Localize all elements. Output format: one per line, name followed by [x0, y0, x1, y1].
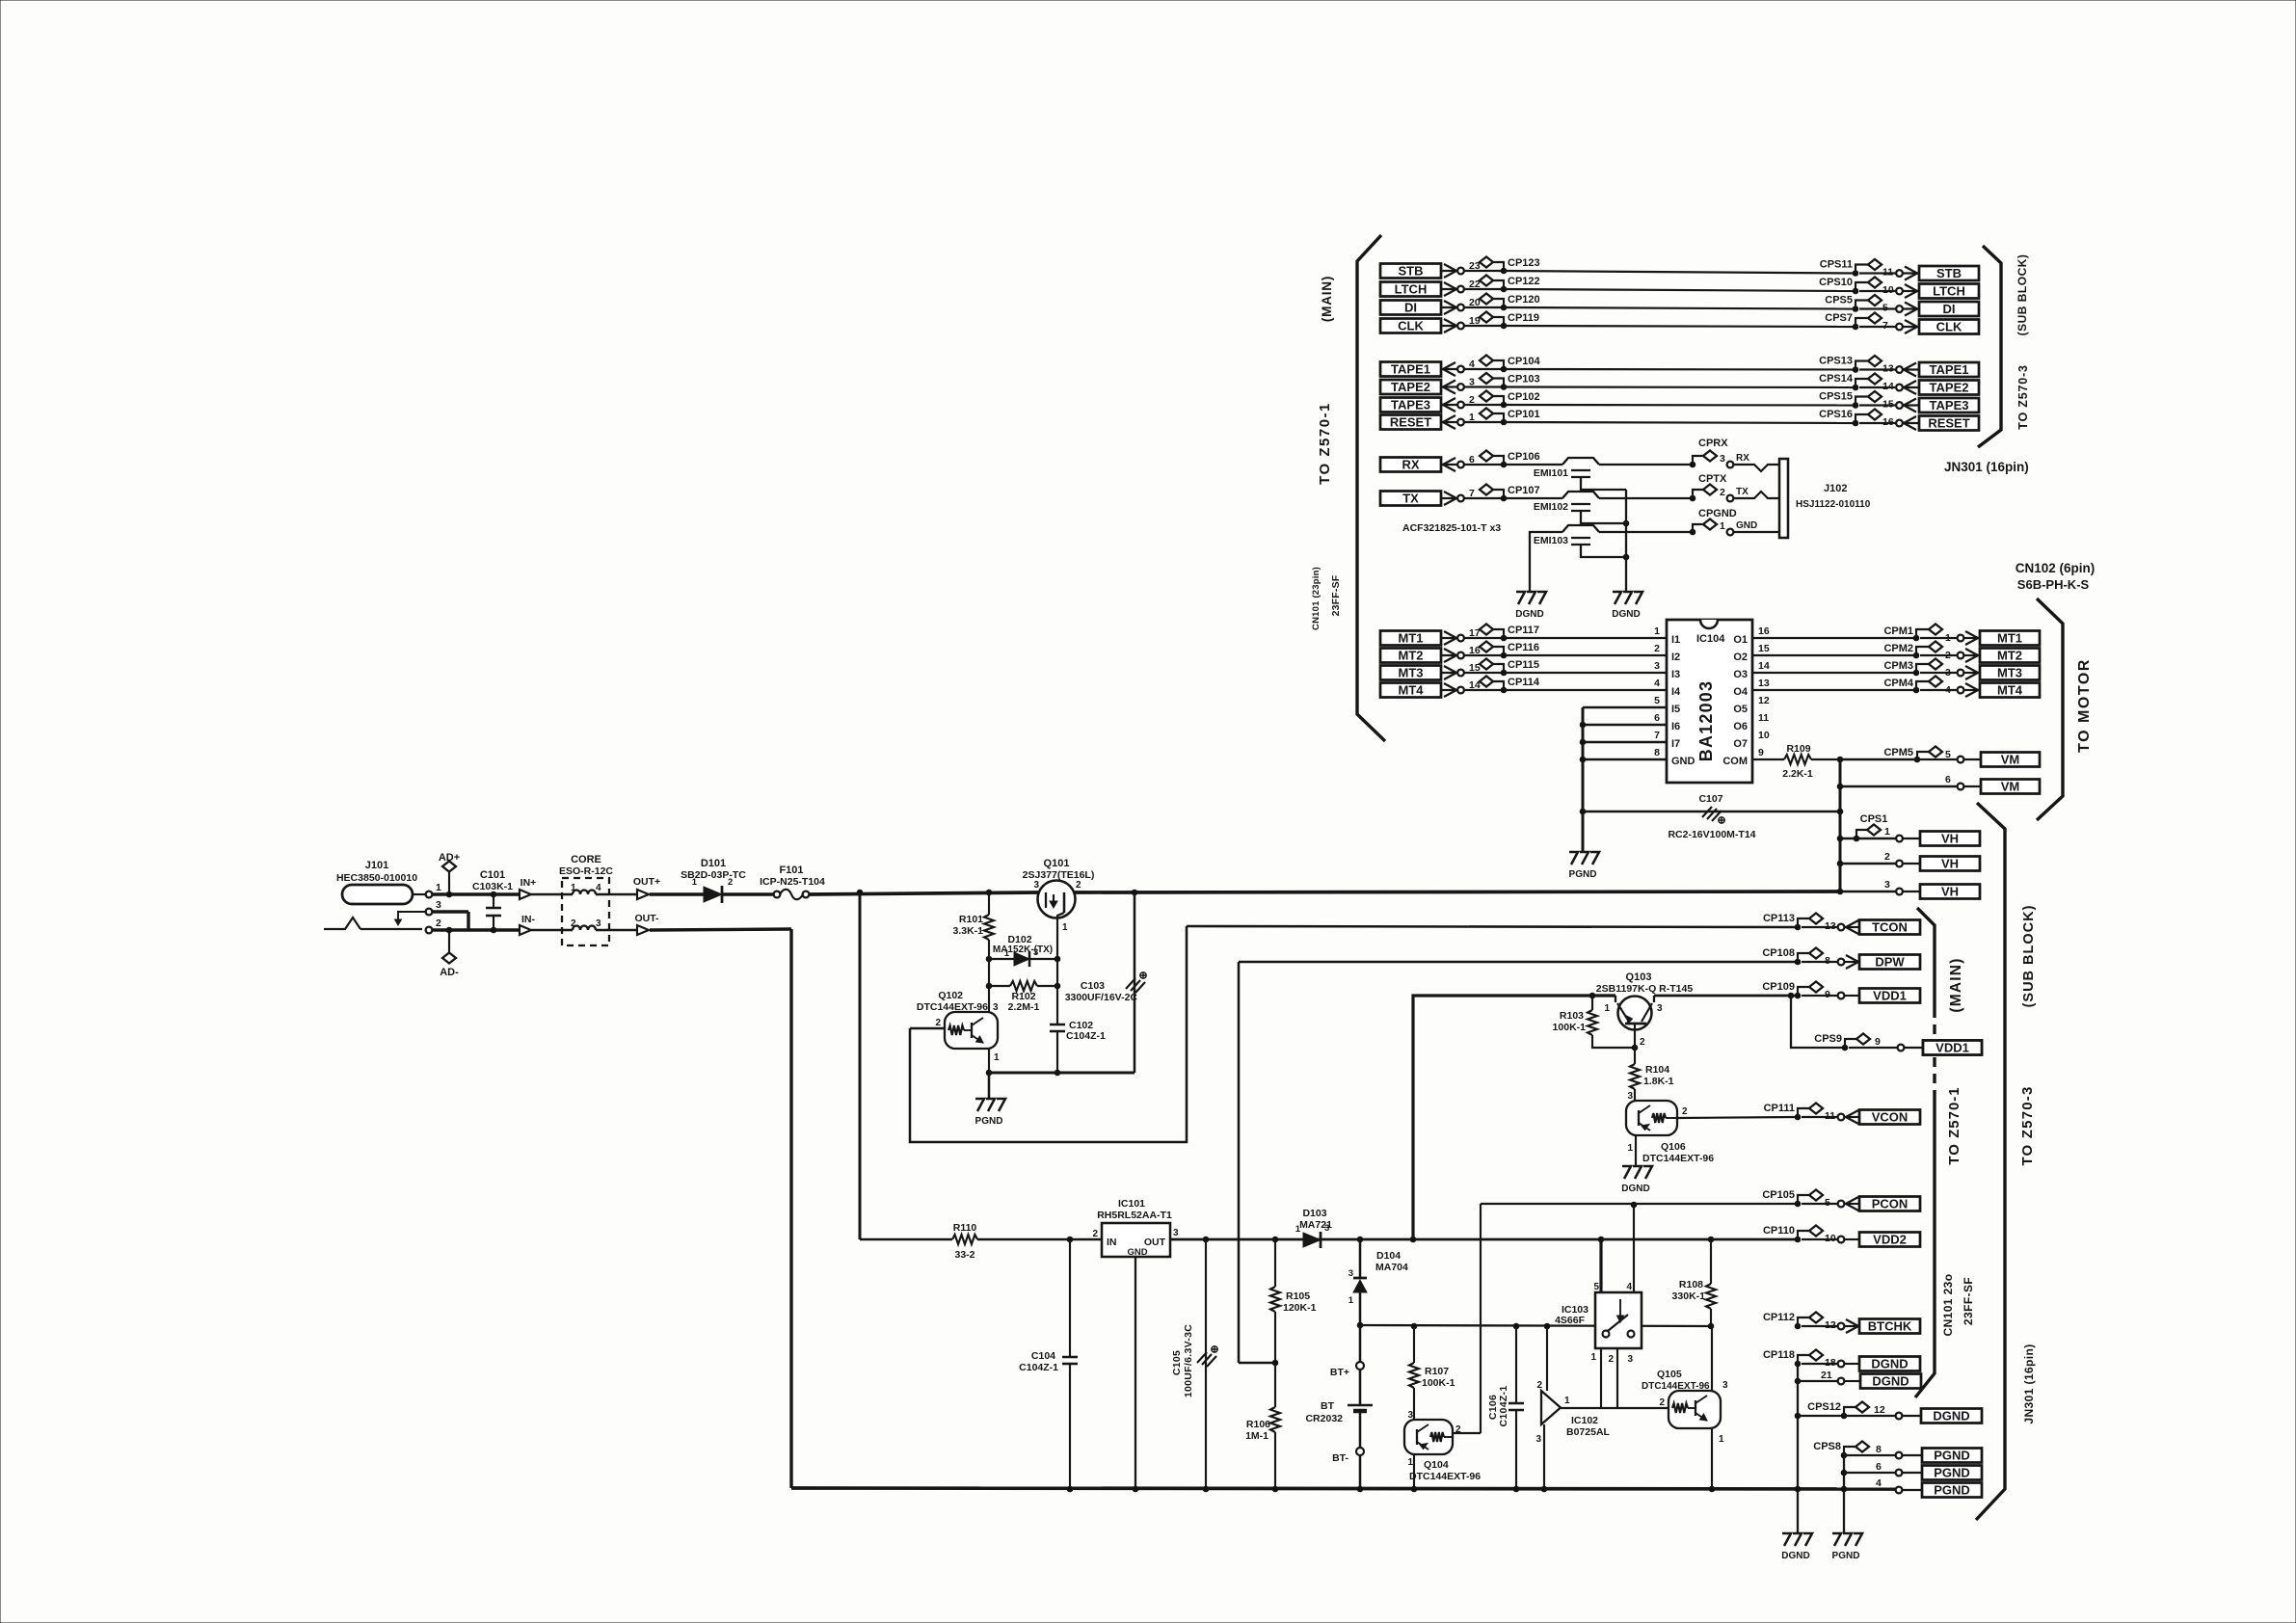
wire LTCH circle to junction: [1464, 288, 1504, 290]
pin circle LTCH right: [1896, 288, 1903, 295]
analog switch IC103 4S66F: [1555, 1282, 1642, 1365]
svg-text:CPRX: CPRX: [1698, 438, 1728, 449]
svg-text:CP113: CP113: [1763, 913, 1795, 924]
svg-text:CPS7: CPS7: [1825, 312, 1853, 324]
wire VH row 3 (main rail end): [1837, 889, 1896, 894]
svg-text:3: 3: [1033, 880, 1039, 891]
pin label I4 (IC104): [1671, 686, 1681, 698]
label (MAIN) top-left: [1320, 276, 1334, 322]
svg-text:GND: GND: [1671, 756, 1695, 767]
pin circle GND J102: [1727, 529, 1734, 536]
pin circle DI left: [1457, 305, 1464, 311]
wire RESET bus: [1504, 422, 1855, 423]
label (MAIN) bottom-right: [1948, 957, 1964, 1012]
pin number 3 (CN102): [1945, 667, 1951, 678]
connector box MT2 (right, CN102): [1980, 649, 2040, 663]
pin number 3 (J102): [1720, 453, 1725, 465]
svg-text:3: 3: [1407, 1410, 1413, 1421]
pin number 3 (J101): [436, 899, 441, 911]
svg-text:5: 5: [1654, 695, 1660, 706]
pin number 7 (IC104): [1654, 730, 1660, 741]
pin circle TCON: [1838, 924, 1845, 931]
label CN101 (23pin): [1311, 567, 1322, 630]
wire CPS12 row: [1798, 1415, 1895, 1417]
svg-text:CP102: CP102: [1508, 391, 1540, 403]
wire Q102 emitter: [988, 1049, 990, 1073]
pin number 16: [1469, 645, 1481, 656]
svg-text:PGND: PGND: [1934, 1466, 1970, 1480]
pin circle CLK right: [1896, 324, 1903, 331]
svg-text:CP114: CP114: [1508, 677, 1540, 688]
connector box MT4 (right, CN102): [1980, 683, 2040, 698]
svg-text:R105: R105: [1286, 1290, 1310, 1302]
wire TAPE3 bus: [1504, 404, 1855, 407]
svg-text:I4: I4: [1671, 686, 1681, 698]
capacitor C103 3300UF: [1065, 890, 1146, 1073]
svg-text:9: 9: [1875, 1036, 1881, 1048]
arrow TX: [1441, 492, 1457, 505]
svg-text:(MAIN): (MAIN): [1320, 276, 1334, 322]
pin number 13: [1882, 363, 1894, 375]
pin number 6 (JN301): [1876, 1461, 1882, 1473]
wire TAPE3 to right connector: [1859, 404, 1896, 406]
svg-text:TO Z570-3: TO Z570-3: [2016, 364, 2030, 429]
svg-text:EMI103: EMI103: [1534, 535, 1568, 546]
label (SUB BLOCK) top-right: [2016, 254, 2029, 336]
wire I7 stub: [1580, 739, 1667, 745]
svg-text:CPS10: CPS10: [1819, 277, 1853, 288]
svg-text:2: 2: [1654, 643, 1660, 654]
arrow OUT-: [609, 913, 659, 935]
wire IC103 pin2 down: [1616, 1348, 1618, 1408]
svg-text:CP108: CP108: [1762, 947, 1795, 959]
svg-text:(SUB BLOCK): (SUB BLOCK): [2016, 254, 2029, 336]
pin circle VH2: [1896, 861, 1903, 867]
wire IC104 output to CPM3 junction: [1752, 672, 1916, 674]
wire RX to CPRX junction: [1599, 464, 1693, 466]
pin label I5 (IC104): [1671, 704, 1680, 715]
svg-text:CPS8: CPS8: [1813, 1441, 1841, 1452]
pin number 10: [1882, 284, 1894, 296]
connector box VM (2): [1981, 780, 2040, 794]
wire IC101 GND to rail: [1133, 1257, 1138, 1492]
svg-text:VCON: VCON: [1872, 1110, 1909, 1125]
connector box MT3 (right, CN102): [1980, 666, 2040, 680]
svg-text:OUT-: OUT-: [634, 913, 659, 924]
wire DGND row 21: [1795, 1378, 1837, 1384]
pin circle VM1: [1958, 757, 1964, 763]
pin circle STB left: [1457, 268, 1464, 275]
pin number 2 (VH): [1884, 851, 1890, 863]
svg-text:VM: VM: [2001, 753, 2020, 767]
arrow DI right: [1903, 303, 1919, 316]
svg-text:1: 1: [1407, 1457, 1413, 1468]
pin number 1 (J102): [1720, 520, 1725, 532]
wire Q103 base: [1634, 1024, 1636, 1048]
svg-text:1: 1: [1564, 1396, 1570, 1406]
svg-text:DTC144EXT-96: DTC144EXT-96: [917, 1001, 988, 1013]
diode D103: [1295, 1208, 1332, 1248]
svg-text:CPS12: CPS12: [1807, 1401, 1841, 1413]
wire IC102 output to Q105 base: [1561, 1407, 1669, 1409]
svg-text:33-2: 33-2: [954, 1249, 974, 1261]
svg-text:100K-1: 100K-1: [1422, 1377, 1455, 1389]
svg-text:MA152K-(TX): MA152K-(TX): [993, 945, 1053, 955]
wire MT3 to junction: [1464, 672, 1504, 674]
arrow CLK right: [1903, 320, 1919, 333]
connector box RX: [1380, 458, 1441, 472]
svg-text:JN301 (16pin): JN301 (16pin): [1944, 460, 2029, 474]
pin number 4 (CN102): [1945, 684, 1951, 696]
EMI filter EMI101: [1534, 458, 1599, 479]
capacitor C106: [1487, 1323, 1524, 1492]
connector box VH: [1920, 832, 1980, 846]
pin circle TAPE2 left: [1457, 384, 1464, 390]
svg-text:VDD2: VDD2: [1873, 1233, 1907, 1247]
wire rail to R110 vertical: [857, 890, 863, 1239]
svg-text:TX: TX: [1402, 492, 1419, 506]
test point CP106: [1480, 451, 1540, 467]
wire OUT+ rail to D101: [650, 892, 704, 895]
pin label O3 (IC104): [1733, 669, 1748, 680]
wire C101 to IN-: [494, 928, 519, 931]
arrow STB right: [1903, 267, 1919, 280]
svg-text:R104: R104: [1645, 1064, 1669, 1076]
battery BT CR2032: [1305, 1325, 1373, 1492]
wire RX to EMI101: [1504, 464, 1562, 466]
pin label I6 (IC104): [1671, 721, 1680, 732]
svg-text:CPTX: CPTX: [1698, 473, 1727, 485]
label TO Z570-3 bottom-right: [2019, 1085, 2036, 1165]
wire IC104 output to CPM4 junction: [1752, 689, 1916, 691]
label TO Z570-1 top-left: [1317, 402, 1333, 485]
arrow OUT+: [609, 876, 660, 899]
pin label COM (IC104): [1722, 756, 1748, 767]
wire EMI103 ground lead: [1581, 545, 1629, 560]
connector box LTCH (left, CN101): [1380, 282, 1441, 297]
svg-text:5: 5: [1593, 1282, 1599, 1292]
pin number 7: [1469, 488, 1475, 499]
connector box VDD2 (CN101 main): [1859, 1233, 1920, 1247]
pin label I1 (IC104): [1671, 634, 1680, 646]
svg-text:CPS16: CPS16: [1819, 409, 1853, 420]
pin number 18 (CN101): [1825, 1357, 1836, 1369]
wire PGND row 8: [1844, 1454, 1895, 1456]
pin label O1 (IC104): [1733, 634, 1748, 646]
svg-text:1: 1: [1062, 922, 1068, 933]
svg-text:2: 2: [1720, 487, 1725, 498]
svg-text:11: 11: [1758, 712, 1769, 724]
test point CP113: [1763, 913, 1823, 930]
svg-text:MT4: MT4: [1399, 683, 1425, 698]
pin number 6 (IC104): [1654, 712, 1660, 724]
svg-text:MT2: MT2: [1997, 649, 2022, 663]
wire RESET to right connector: [1859, 422, 1896, 424]
arrow RESET right: [1903, 416, 1919, 430]
svg-text:6: 6: [1654, 712, 1660, 724]
label TO MOTOR: [2076, 658, 2093, 753]
connector box MT1 (left, CN101): [1380, 631, 1441, 646]
svg-text:S6B-PH-K-S: S6B-PH-K-S: [2017, 577, 2090, 592]
svg-text:IC101: IC101: [1118, 1198, 1145, 1210]
svg-text:STB: STB: [1399, 264, 1424, 279]
pin circle LTCH left: [1457, 286, 1464, 293]
svg-text:PGND: PGND: [1832, 1551, 1860, 1561]
pin circle VDD1: [1838, 993, 1845, 999]
connector box DGND (21): [1860, 1374, 1921, 1389]
pin number 21 (CN101): [1821, 1370, 1832, 1381]
pin number 12 (CN101): [1825, 1319, 1836, 1331]
svg-text:R103: R103: [1560, 1010, 1584, 1022]
svg-text:R101: R101: [959, 914, 983, 925]
svg-text:CPS13: CPS13: [1819, 356, 1853, 367]
net label TX: [1736, 487, 1749, 497]
arrow DPW: [1845, 955, 1859, 969]
svg-text:3: 3: [1627, 1354, 1633, 1365]
svg-text:CR2032: CR2032: [1305, 1413, 1343, 1424]
pin circle MT1 left: [1457, 635, 1464, 642]
svg-text:MT3: MT3: [1399, 666, 1424, 680]
connector box VDD1 (sub, overlay above bracket): [1923, 1041, 1982, 1055]
test point CP120: [1480, 294, 1540, 310]
test point CPS14: [1819, 373, 1882, 390]
svg-text:D103: D103: [1302, 1208, 1326, 1219]
wire PGND column vertical: [1841, 1455, 1847, 1533]
voltage regulator IC101 RH5RL52AA-T1: [1092, 1198, 1179, 1258]
pin circle RESET right: [1896, 420, 1903, 427]
svg-text:CP107: CP107: [1508, 485, 1540, 496]
svg-text:RX: RX: [1736, 453, 1749, 464]
wire GND row left segment to DGND: [1530, 532, 1562, 592]
node VM trunk: [1837, 757, 1843, 891]
svg-text:CP117: CP117: [1508, 625, 1539, 636]
svg-text:PGND: PGND: [1934, 1483, 1970, 1498]
svg-text:1: 1: [692, 877, 698, 888]
svg-text:2: 2: [728, 877, 733, 888]
wire TAPE1 to right connector: [1859, 368, 1896, 370]
pin label O2 (IC104): [1733, 652, 1748, 663]
pin circle MT3 right: [1958, 670, 1964, 677]
pin number 13 (CN101): [1825, 920, 1836, 932]
test point CP103: [1480, 373, 1540, 389]
test point CP108: [1762, 947, 1823, 965]
svg-text:7: 7: [1654, 730, 1660, 741]
wire Q106 emitter to DGND: [1635, 1135, 1637, 1166]
svg-text:3: 3: [436, 899, 441, 911]
connector J102: [1779, 459, 1871, 538]
svg-text:3: 3: [1654, 660, 1660, 672]
wire DI circle to junction: [1464, 306, 1504, 308]
svg-text:I3: I3: [1671, 669, 1680, 680]
wire DGND21 to box: [1845, 1380, 1860, 1382]
pin number 1 (IC104 input): [1654, 625, 1660, 637]
arrow VDD1: [1845, 995, 1859, 997]
net label RX: [1736, 453, 1749, 464]
svg-text:OUT+: OUT+: [633, 876, 660, 888]
wire Q103 emitter stub: [1592, 996, 1615, 1002]
arrow BTCHK: [1845, 1319, 1859, 1333]
pin label GND (IC104): [1671, 756, 1695, 767]
op-amp/driver IC104 BA12003 body: [1667, 620, 1752, 783]
wire GND to J102: [1734, 531, 1779, 533]
sleeve lead with strain relief: [324, 918, 422, 929]
pin label I7 (IC104): [1671, 738, 1680, 750]
pin number 7: [1882, 320, 1888, 332]
op-amp IC102 B0725AL: [1535, 1323, 1610, 1492]
wire TAPE1 bus: [1504, 368, 1855, 371]
connector box DPW (CN101 main): [1859, 955, 1920, 970]
svg-text:BT+: BT+: [1330, 1367, 1349, 1378]
wire main +V rail (right of Q101): [1074, 891, 1840, 892]
svg-text:16: 16: [1758, 625, 1770, 637]
test point CP101: [1480, 409, 1540, 425]
wire PGND8 to box: [1903, 1454, 1922, 1456]
pin circle MT2 left: [1457, 652, 1464, 659]
svg-text:2: 2: [1640, 1037, 1645, 1048]
svg-text:IN-: IN-: [521, 914, 536, 925]
arrow TAPE3 right: [1903, 399, 1919, 412]
switch contact arrow (J101): [395, 912, 426, 925]
svg-text:12: 12: [1874, 1404, 1885, 1416]
svg-text:MT1: MT1: [1997, 631, 2022, 646]
test point CPS11: [1820, 259, 1882, 277]
pin number 12 (JN301): [1874, 1404, 1885, 1416]
svg-text:B0725AL: B0725AL: [1566, 1426, 1611, 1438]
svg-text:IN+: IN+: [521, 877, 537, 889]
resistor R103: [1553, 993, 1638, 1051]
svg-text:O4: O4: [1733, 686, 1749, 698]
svg-text:VDD1: VDD1: [1873, 989, 1907, 1003]
svg-text:2: 2: [1092, 1229, 1098, 1239]
svg-text:VH: VH: [1941, 885, 1959, 899]
pin number 5 (CN102 VM): [1945, 749, 1951, 760]
wire I6 stub: [1580, 722, 1667, 728]
svg-text:DPW: DPW: [1875, 955, 1905, 970]
svg-text:I2: I2: [1671, 652, 1680, 663]
svg-text:330K-1: 330K-1: [1672, 1290, 1706, 1302]
wire C101 to IN+: [494, 892, 519, 895]
net label GND: [1736, 520, 1757, 531]
svg-text:J101: J101: [365, 860, 388, 871]
pin circle MT1 right: [1958, 635, 1964, 642]
svg-text:3: 3: [1657, 1003, 1663, 1014]
ground PGND (bottom): [1832, 1533, 1862, 1561]
resistor R110: [860, 1222, 1102, 1261]
wire BTCHK sense line: [1357, 1322, 1711, 1328]
svg-text:4S66F: 4S66F: [1555, 1315, 1586, 1326]
wire IC104 input bus vertical: [1582, 707, 1585, 852]
ground PGND (Q102): [975, 1073, 1005, 1127]
connector box CLK (left, CN101): [1380, 319, 1441, 333]
connector box STB (right, JN301): [1919, 266, 1979, 280]
pin circle DGND 12: [1896, 1413, 1903, 1420]
svg-text:Q105: Q105: [1657, 1369, 1682, 1380]
svg-text:3: 3: [1173, 1228, 1179, 1238]
node AD-: [432, 927, 494, 978]
wire pins 2-3 short: [432, 912, 468, 930]
capacitor C102: [1050, 986, 1106, 1073]
connector box DGND (12): [1921, 1409, 1982, 1423]
svg-text:CP115: CP115: [1508, 659, 1539, 671]
wire Q105 emitter: [1709, 1428, 1715, 1492]
pin circle RESET left: [1457, 419, 1464, 426]
svg-text:TAPE2: TAPE2: [1930, 381, 1969, 395]
test point CP112: [1763, 1312, 1823, 1329]
node AD+: [432, 852, 494, 897]
wire MT4 to IC104 pin 4: [1504, 689, 1667, 691]
pin number 6: [1469, 454, 1475, 466]
label JN301 (16pin) bottom: [2022, 1344, 2036, 1423]
svg-text:C107: C107: [1698, 793, 1722, 805]
wire Q102 base: [910, 1027, 945, 1030]
connector box CLK (right, JN301): [1919, 320, 1979, 334]
wire VH1 to box: [1903, 838, 1920, 839]
wire TAPE1 circle to junction: [1464, 368, 1504, 370]
svg-text:CPM4: CPM4: [1883, 678, 1913, 689]
bracket CN102 (TO MOTOR): [2037, 599, 2063, 820]
pin number 1: [1469, 412, 1475, 423]
svg-text:AD+: AD+: [439, 852, 460, 864]
label (SUB BLOCK) bottom-right: [2021, 905, 2037, 1008]
wire VDD1 feed (D103 row up to Q103): [1410, 996, 1592, 1242]
svg-text:TO Z570-1: TO Z570-1: [1946, 1086, 1962, 1164]
svg-text:CPS1: CPS1: [1860, 813, 1888, 825]
wire MT1 to IC104 pin 1: [1504, 637, 1667, 639]
wire bottom ground rail: [791, 1488, 1895, 1489]
svg-text:HSJ1122-010110: HSJ1122-010110: [1796, 499, 1871, 510]
svg-text:2: 2: [1884, 851, 1890, 863]
test point CPS10: [1819, 277, 1882, 294]
wire STB circle to junction: [1464, 270, 1504, 272]
pin circle PGND 8: [1896, 1452, 1903, 1459]
wire DPW to pin circle: [1802, 961, 1837, 963]
wire PGND6 to box: [1903, 1472, 1922, 1474]
resistor R108: [1672, 1237, 1716, 1329]
EMI filter EMI103: [1534, 525, 1599, 546]
pin label O6 (IC104): [1733, 721, 1748, 732]
svg-text:4: 4: [1654, 678, 1660, 689]
wire PGND row 6: [1844, 1472, 1895, 1474]
svg-text:PGND: PGND: [975, 1116, 1003, 1127]
svg-text:TX: TX: [1736, 487, 1749, 497]
pin circle TAPE1 right: [1896, 366, 1903, 373]
arrow TAPE1 left: [1441, 362, 1457, 376]
pin number 2 (J102): [1720, 487, 1725, 498]
pin number 3: [1469, 377, 1475, 388]
wire PGND4 to box: [1903, 1489, 1922, 1491]
wire PGND row 4 (rail end): [1876, 1477, 1882, 1489]
wire STB to right connector: [1859, 272, 1896, 274]
svg-text:GND: GND: [1127, 1247, 1147, 1258]
connector box PCON (CN101 main): [1859, 1197, 1920, 1211]
pin number 4 (IC104 input): [1654, 678, 1660, 689]
connector box RESET (left, CN101): [1380, 415, 1441, 430]
svg-text:O3: O3: [1733, 669, 1748, 680]
inductor CORE winding 2-3: [562, 918, 609, 930]
pin circle DGND 21: [1838, 1378, 1845, 1385]
svg-text:MA704: MA704: [1375, 1262, 1408, 1273]
svg-text:2SB1197K-Q R-T145: 2SB1197K-Q R-T145: [1596, 983, 1694, 995]
test point CP123: [1480, 257, 1540, 274]
pin label O4 (IC104): [1733, 686, 1749, 698]
arrow TAPE1 right: [1903, 363, 1919, 377]
pin circle VH1: [1896, 836, 1903, 842]
svg-text:3: 3: [596, 918, 601, 929]
arrow DI left: [1441, 301, 1457, 314]
wire minus rail drop: [789, 929, 792, 1488]
svg-text:3: 3: [1033, 947, 1038, 958]
svg-text:SB2D-03P-TC: SB2D-03P-TC: [681, 869, 746, 881]
